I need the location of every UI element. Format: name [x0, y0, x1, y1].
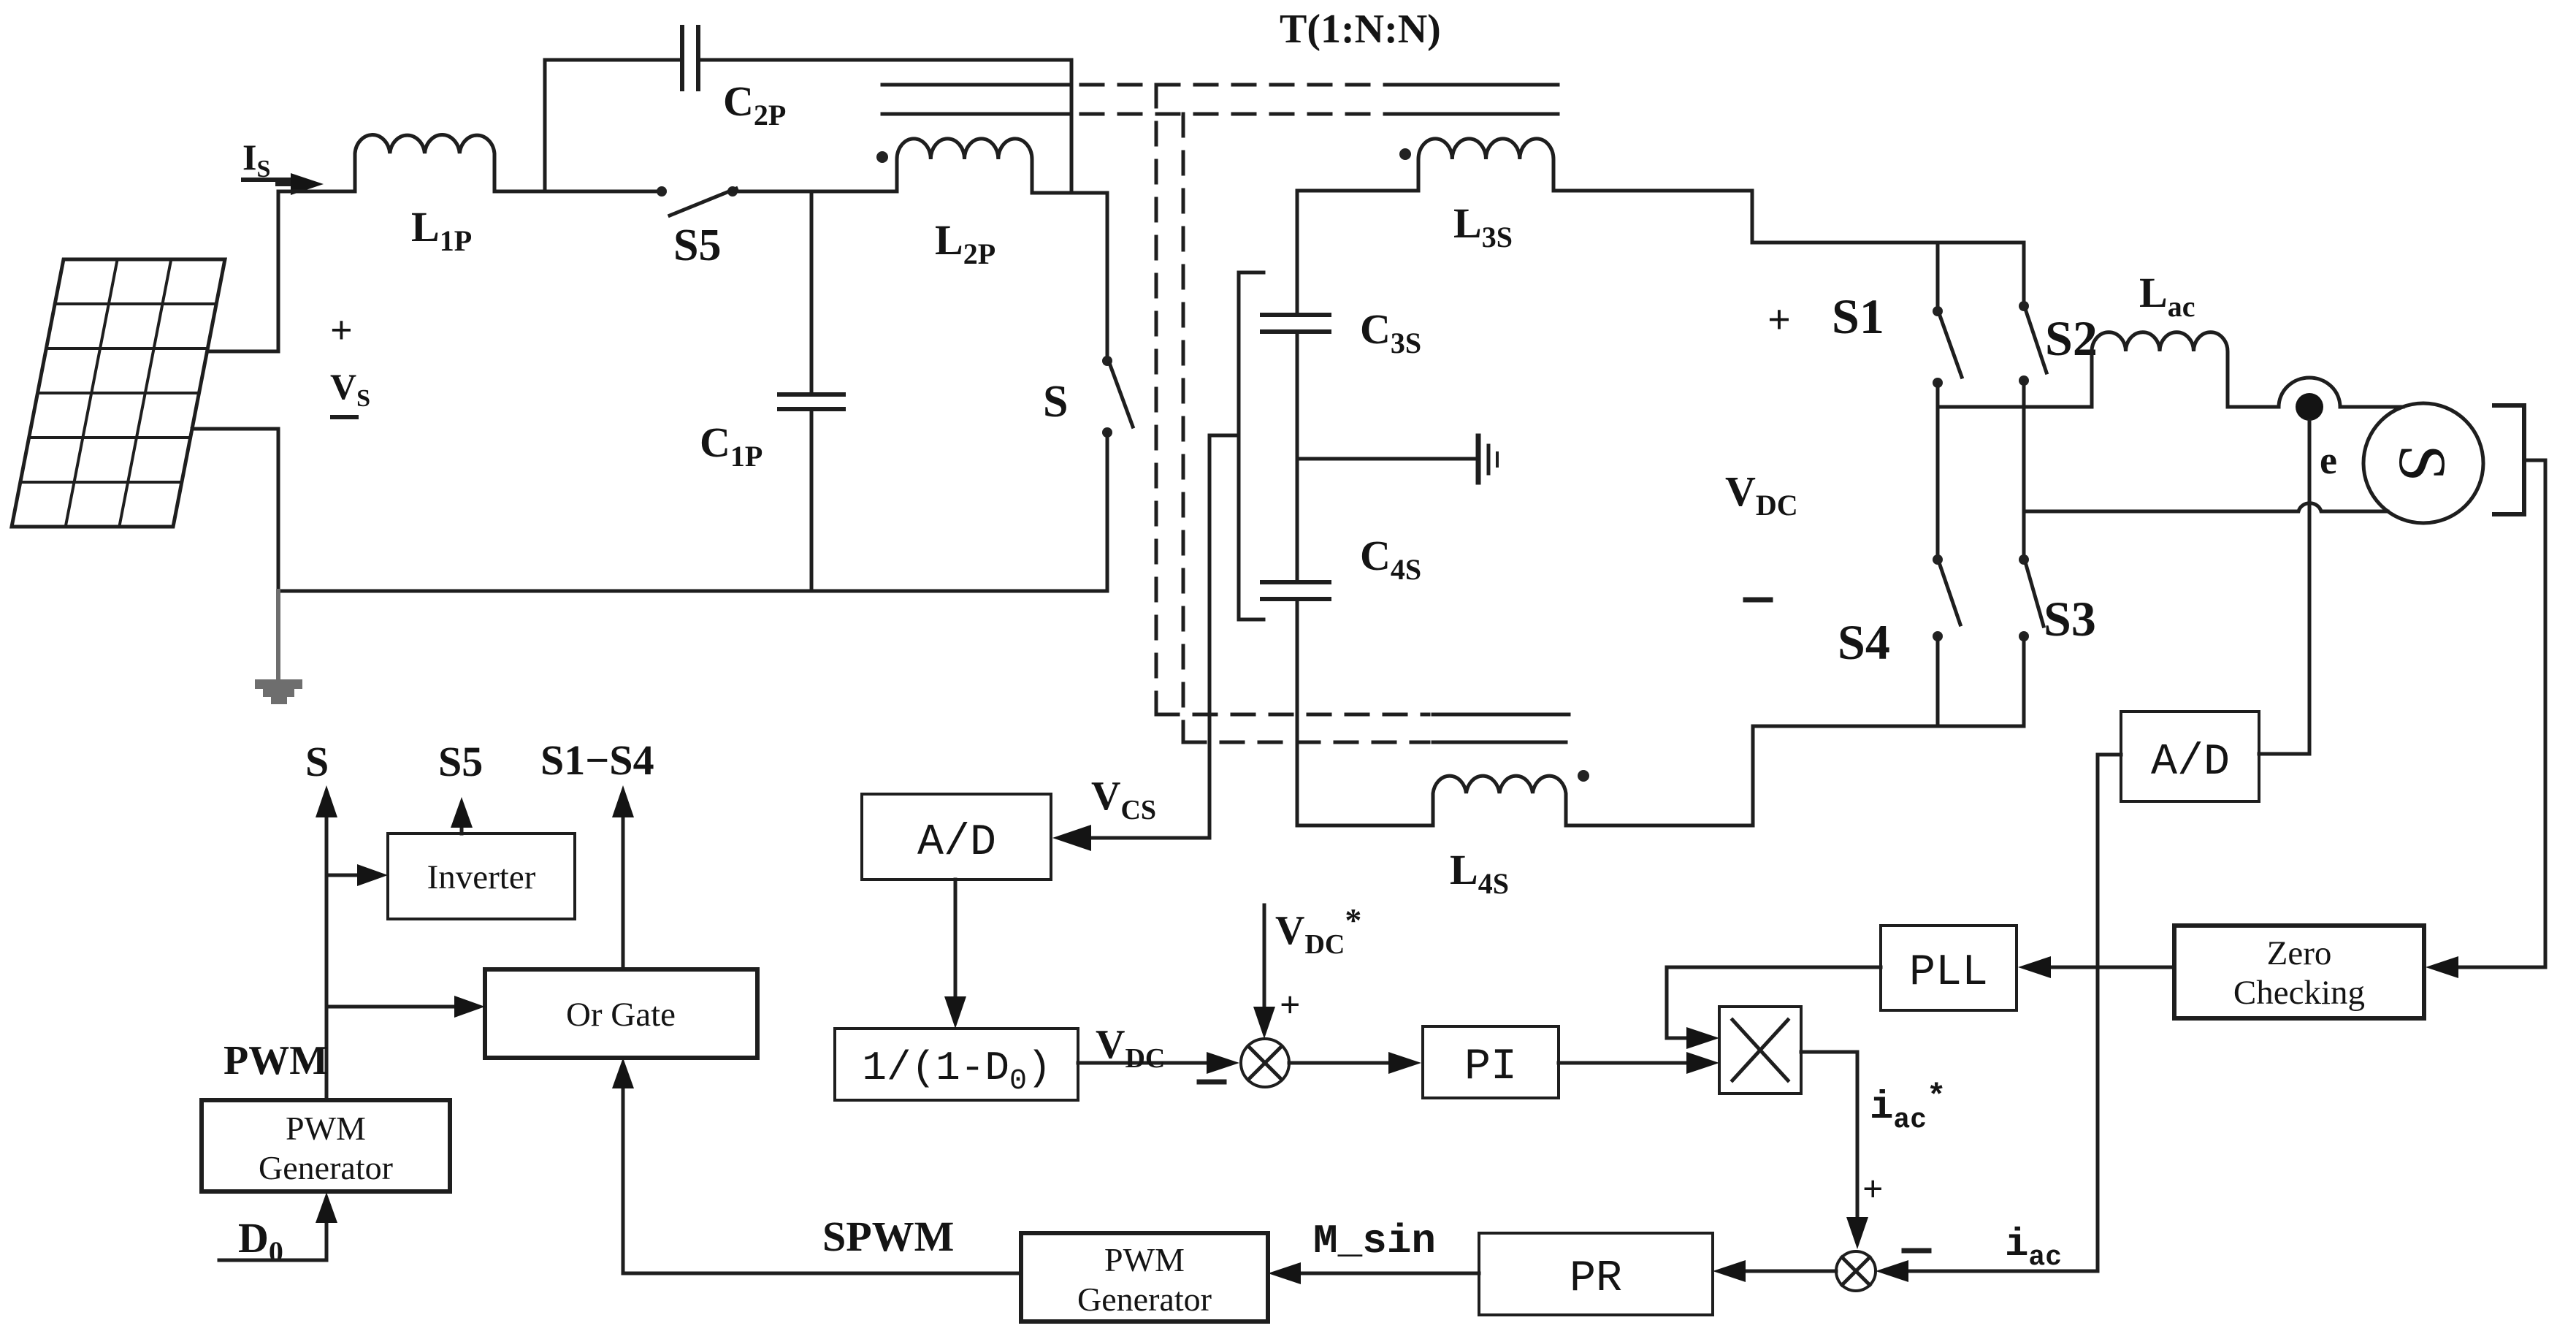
summing junction 1 — [1241, 1039, 1289, 1087]
svg-text:M_sin: M_sin — [1313, 1218, 1436, 1265]
wire S5 arrow from inverter — [460, 824, 464, 834]
wire zero checking to PLL with arrow — [2049, 966, 2174, 969]
inductor L2P primary winding — [897, 139, 1032, 193]
svg-text:S5: S5 — [438, 738, 483, 785]
svg-text:iac: iac — [2005, 1223, 2062, 1273]
summing junction 2 — [1836, 1251, 1876, 1291]
label S5 output — [438, 738, 483, 785]
svg-text:C4S: C4S — [1360, 532, 1421, 586]
svg-text:C2P: C2P — [723, 77, 786, 131]
svg-text:PI: PI — [1464, 1042, 1517, 1092]
switch S4 — [1933, 554, 1960, 726]
1/(1-D0) block — [835, 1029, 1078, 1100]
label + at summing junction 1 — [1280, 984, 1301, 1025]
wire main bus left — [278, 190, 355, 194]
wire iac feedback into summing junction 2 — [1907, 1270, 2098, 1273]
svg-text:Checking: Checking — [2233, 974, 2365, 1012]
svg-text:S4: S4 — [1838, 614, 1890, 670]
wire L4S right to bridge bottom rail — [1566, 726, 1753, 825]
ground — [255, 679, 302, 704]
wire bridge top rail — [1752, 241, 2024, 245]
svg-text:VCS: VCS — [1091, 774, 1156, 825]
svg-text:A/D: A/D — [2151, 738, 2230, 787]
capacitor C4S — [1262, 582, 1329, 825]
svg-text:S: S — [305, 738, 329, 785]
wire bridge mid rail from S1 leg — [1938, 405, 2092, 409]
switch S — [1102, 356, 1133, 438]
svg-text:Lac: Lac — [2139, 269, 2195, 323]
label VDC output — [1096, 1022, 1165, 1074]
wire C2P branch top left — [545, 58, 680, 62]
label VDC* — [1275, 901, 1361, 960]
inductor L3S secondary winding — [1418, 139, 1553, 191]
svg-text:VS: VS — [330, 366, 370, 412]
svg-text:1/(1-D0): 1/(1-D0) — [862, 1045, 1051, 1098]
switch S2 — [2019, 243, 2046, 386]
label S1-S4 output — [540, 736, 654, 784]
wire PR to PWM generator 2 — [1299, 1272, 1479, 1275]
svg-text:S5: S5 — [673, 221, 721, 270]
svg-text:S1: S1 — [1832, 289, 1884, 344]
transformer primary core bars — [882, 85, 1071, 114]
PR block — [1479, 1233, 1713, 1315]
node e junction dot — [2296, 393, 2323, 421]
label - at summing junction 1 — [1199, 1080, 1224, 1085]
switch S1 — [1933, 243, 1962, 388]
svg-text:iac*: iac* — [1870, 1079, 1946, 1136]
wire bracket to zero checking — [2457, 460, 2545, 967]
svg-text:PWM: PWM — [286, 1110, 366, 1147]
inductor L4S secondary winding — [1433, 776, 1566, 825]
wire PLL to multiplier — [1667, 967, 1881, 1038]
svg-text:VDC: VDC — [1096, 1022, 1165, 1074]
svg-text:S3: S3 — [2044, 591, 2096, 647]
svg-text:VDC*: VDC* — [1275, 901, 1361, 960]
wire e node sense line down — [2308, 421, 2312, 754]
Zero Checking block — [2174, 926, 2424, 1018]
wire summing junction 1 to PI — [1289, 1061, 1390, 1065]
svg-text:VDC: VDC — [1725, 468, 1798, 522]
svg-text:e: e — [2320, 438, 2337, 482]
svg-text:L2P: L2P — [935, 216, 995, 270]
label transformer T(1:N:N) — [1280, 7, 1441, 52]
PWM generator 2 block — [1021, 1233, 1268, 1322]
wire C2P branch top right — [700, 58, 1071, 62]
Or Gate block — [485, 969, 757, 1058]
svg-text:SPWM: SPWM — [822, 1213, 954, 1260]
label + of VDC — [1767, 297, 1791, 343]
wire A/D down to 1/(1-D0) — [954, 880, 958, 998]
wire SPWM to Or gate — [623, 1087, 1021, 1273]
PLL block — [1881, 926, 2017, 1010]
wire summing junction 2 to PR — [1744, 1270, 1836, 1273]
wire branch to or gate — [326, 1005, 454, 1009]
svg-text:PLL: PLL — [1909, 948, 1988, 998]
wire S1-S4 arrow from or gate — [622, 815, 625, 969]
inductor L1P — [355, 135, 494, 191]
wire C2P branch riser — [543, 60, 547, 191]
wire panel negative tap — [192, 429, 278, 591]
svg-text:+: + — [330, 308, 353, 352]
capacitor C2P — [682, 27, 698, 89]
transformer boundary dashed vertical right — [1182, 114, 1185, 742]
wire C2P right riser down — [1070, 60, 1074, 193]
wire branch to inverter — [326, 874, 359, 877]
transformer boundary dashed vertical left — [1155, 85, 1158, 716]
switch S3 — [2019, 554, 2044, 726]
wire e node into A/D right side — [2259, 752, 2309, 756]
svg-text:L3S: L3S — [1453, 199, 1513, 253]
svg-text:S: S — [1043, 377, 1068, 427]
svg-text:Inverter: Inverter — [427, 858, 536, 896]
secondary middle winding bracket — [1239, 272, 1264, 619]
svg-text:L1P: L1P — [411, 203, 472, 257]
capacitor C3S — [1262, 191, 1329, 332]
transformer boundary dashed lines top — [1081, 85, 1404, 114]
label M_sin — [1313, 1218, 1436, 1265]
svg-text:Generator: Generator — [259, 1149, 393, 1186]
svg-text:C3S: C3S — [1360, 305, 1421, 359]
svg-text:C1P: C1P — [700, 419, 763, 473]
svg-text:S1−S4: S1−S4 — [540, 736, 654, 784]
wire Lac to grid with crossover hump — [2228, 378, 2403, 407]
svg-text:A/D: A/D — [917, 818, 996, 868]
transformer boundary dashed lines bottom — [1156, 714, 1429, 742]
wire L4S left to capacitor string bottom — [1297, 824, 1433, 828]
current label Is with arrow — [242, 137, 270, 183]
wire A/D left output iac down — [2098, 755, 2121, 1271]
grid terminal bracket — [2494, 405, 2524, 514]
label SPWM — [822, 1213, 954, 1260]
label S output — [305, 738, 329, 785]
svg-text:PWM: PWM — [1104, 1241, 1185, 1278]
svg-text:IS: IS — [242, 137, 270, 183]
polarity dot L3S — [1399, 148, 1411, 160]
capacitor C1P — [779, 191, 844, 591]
A/D converter left — [862, 794, 1051, 880]
transformer secondary core bars upper — [1407, 85, 1558, 114]
PI block — [1423, 1026, 1559, 1098]
wire S control vertical with arrow — [325, 815, 329, 1100]
wire multiplier output to summing junction — [1801, 1052, 1857, 1219]
svg-text:+: + — [1280, 984, 1301, 1025]
wire VDC* into summing junction top — [1263, 905, 1266, 1008]
multiplier block — [1719, 1007, 1801, 1094]
wire VCS sense into A/D — [1088, 435, 1239, 838]
polarity dot L2P — [876, 151, 888, 163]
Inverter block — [388, 834, 575, 919]
label + at summing junction 2 — [1862, 1168, 1884, 1209]
wire S to bottom bus — [1106, 432, 1109, 591]
transformer secondary core bars lower — [1433, 714, 1569, 742]
wire bridge lower output to grid with crossover hump — [2024, 503, 2388, 511]
svg-text:PR: PR — [1570, 1254, 1622, 1304]
minus sign of Vs — [332, 415, 356, 419]
wire S2 leg to S3 — [2022, 381, 2026, 554]
label VDC — [1725, 468, 1798, 522]
wire panel positive tap — [207, 191, 278, 351]
wire L3S right with step to bridge top rail — [1553, 191, 1752, 243]
label iac — [2005, 1223, 2062, 1273]
wire ground stem — [276, 591, 280, 680]
label D0 — [238, 1214, 283, 1268]
svg-text:PWM: PWM — [223, 1038, 328, 1083]
PWM generator 1 block — [202, 1100, 450, 1191]
label PWM — [223, 1038, 328, 1083]
node Vs labels — [330, 308, 370, 412]
svg-text:L4S: L4S — [1450, 846, 1509, 900]
wire D0 input — [219, 1221, 326, 1260]
svg-text:Zero: Zero — [2267, 934, 2332, 972]
inductor Lac — [2092, 332, 2228, 407]
label e — [2320, 438, 2337, 482]
wire L2P to S switch — [1032, 193, 1107, 361]
label - of VDC — [1746, 598, 1770, 603]
svg-text:Generator: Generator — [1077, 1281, 1212, 1318]
label VCS — [1091, 774, 1156, 825]
wire 1/(1-D0) to summing junction 1 — [1078, 1061, 1208, 1065]
polarity dot L4S — [1578, 770, 1589, 782]
wire S1 leg to S4 — [1936, 383, 1940, 554]
svg-text:+: + — [1862, 1168, 1884, 1209]
svg-text:S: S — [2385, 444, 2460, 481]
switch S5 — [657, 186, 738, 216]
svg-text:S2: S2 — [2045, 310, 2098, 366]
wire capacitor string middle — [1296, 333, 1299, 581]
ground chassis symbol at center tap — [1478, 436, 1497, 482]
wire bus S5 to L2P — [733, 190, 897, 194]
svg-text:+: + — [1767, 297, 1791, 343]
wire PI to multiplier — [1559, 1061, 1688, 1065]
svg-text:T(1:N:N): T(1:N:N) — [1280, 7, 1441, 52]
wire bridge bottom rail — [1753, 725, 2024, 728]
label iac* — [1870, 1079, 1946, 1136]
wire center tap — [1297, 457, 1478, 461]
svg-text:Or Gate: Or Gate — [566, 996, 676, 1034]
PV panel (solar array) — [12, 259, 225, 527]
wire bus L1P to S5 — [494, 190, 662, 194]
label - at summing junction 2 — [1904, 1248, 1929, 1254]
wire bottom bus — [278, 590, 1107, 593]
wire L3S left to capacitor string — [1297, 189, 1418, 193]
grid source circle S — [2363, 403, 2483, 523]
A/D converter right — [2121, 712, 2259, 801]
